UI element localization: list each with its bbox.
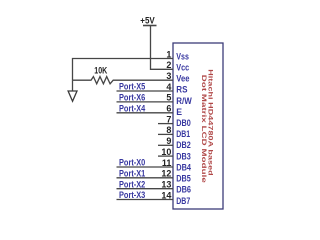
svg-text:10K: 10K (94, 66, 107, 76)
svg-text:DB1: DB1 (176, 129, 190, 139)
svg-text:DB4: DB4 (176, 162, 191, 172)
svg-text:DB7: DB7 (176, 196, 190, 206)
svg-text:12: 12 (161, 169, 171, 179)
svg-text:9: 9 (166, 136, 171, 146)
svg-text:Vcc: Vcc (176, 62, 189, 72)
svg-text:Port-X1: Port-X1 (119, 169, 145, 179)
svg-text:Vee: Vee (176, 74, 189, 84)
svg-text:5: 5 (166, 93, 171, 103)
svg-text:DB5: DB5 (176, 174, 191, 184)
svg-text:10: 10 (161, 147, 171, 157)
svg-text:R/W: R/W (176, 96, 192, 106)
svg-text:Port-X3: Port-X3 (119, 190, 145, 200)
svg-text:13: 13 (161, 180, 171, 190)
svg-text:1: 1 (166, 49, 171, 59)
svg-text:Dot Matrix LCD Module: Dot Matrix LCD Module (200, 75, 207, 184)
svg-text:6: 6 (166, 104, 171, 114)
svg-text:DB3: DB3 (176, 151, 191, 161)
svg-text:DB6: DB6 (176, 185, 191, 195)
svg-text:Port-X5: Port-X5 (119, 82, 145, 92)
svg-text:7: 7 (166, 114, 171, 124)
svg-text:4: 4 (166, 82, 171, 92)
svg-text:11: 11 (162, 158, 172, 168)
svg-text:Port-X0: Port-X0 (119, 158, 145, 168)
svg-text:DB0: DB0 (176, 118, 191, 128)
svg-text:3: 3 (166, 71, 171, 81)
svg-text:RS: RS (176, 85, 187, 95)
svg-text:Port-X4: Port-X4 (119, 103, 145, 113)
svg-text:8: 8 (166, 125, 171, 135)
svg-text:Port-X6: Port-X6 (119, 93, 145, 103)
svg-text:E: E (176, 107, 182, 117)
svg-text:14: 14 (161, 190, 171, 200)
svg-text:2: 2 (166, 60, 171, 70)
svg-text:DB2: DB2 (176, 140, 191, 150)
svg-text:+5V: +5V (140, 16, 154, 26)
svg-text:Vss: Vss (176, 51, 189, 61)
svg-text:Port-X2: Port-X2 (119, 179, 145, 189)
